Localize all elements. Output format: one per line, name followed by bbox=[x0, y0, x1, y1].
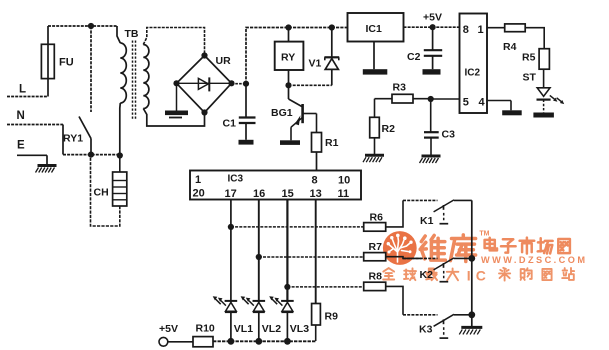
wire IC3 pin15 column bbox=[286, 200, 288, 303]
ground at E bbox=[38, 164, 57, 167]
svg-text:+5V: +5V bbox=[423, 12, 442, 24]
node C1 top bbox=[243, 81, 249, 87]
svg-text:IC2: IC2 bbox=[465, 68, 481, 79]
svg-text:R4: R4 bbox=[503, 41, 517, 53]
node BG1 collector bbox=[285, 82, 291, 88]
svg-text:VL1: VL1 bbox=[234, 323, 253, 335]
node VL1 bottom bbox=[228, 338, 235, 345]
ground at K rail bbox=[461, 326, 482, 329]
svg-text:C1: C1 bbox=[223, 118, 237, 130]
wire bridge to C1 node bbox=[232, 83, 247, 85]
wire IC2 pin1 to R4 bbox=[487, 27, 505, 29]
pushbutton K3 bbox=[403, 314, 472, 338]
ground at R2 bbox=[365, 154, 384, 157]
wire N row to CH bbox=[63, 154, 120, 156]
svg-text:WWW.DZSC.COM: WWW.DZSC.COM bbox=[481, 255, 587, 265]
svg-text:K1: K1 bbox=[420, 215, 434, 227]
wire top-left bus bbox=[48, 25, 117, 27]
svg-text:+5V: +5V bbox=[159, 323, 178, 335]
resistor R4 bbox=[505, 24, 526, 32]
svg-text:TB: TB bbox=[125, 28, 139, 40]
terminal E bbox=[17, 140, 47, 165]
choke CH bbox=[91, 155, 127, 226]
svg-text:ST: ST bbox=[523, 72, 537, 84]
svg-text:RY: RY bbox=[281, 52, 295, 64]
watermark slogan bbox=[383, 268, 574, 284]
terminal +5V bottom bbox=[159, 337, 193, 346]
svg-text:E: E bbox=[17, 140, 25, 152]
ground at IC2 pin4 bbox=[502, 110, 522, 115]
svg-text:VL2: VL2 bbox=[262, 323, 281, 335]
ground at bridge bbox=[165, 83, 188, 118]
LED VL3 bbox=[269, 296, 294, 341]
svg-text:IC3: IC3 bbox=[228, 174, 244, 185]
wire IC2 pin5 row bbox=[431, 98, 460, 100]
wire R6 row bbox=[231, 226, 364, 228]
svg-text:R10: R10 bbox=[196, 323, 215, 335]
terminal L bbox=[7, 84, 48, 97]
svg-text:8: 8 bbox=[312, 175, 318, 187]
svg-text:I: I bbox=[467, 268, 471, 284]
node K3 rail bbox=[468, 311, 475, 318]
resistor R7 bbox=[364, 253, 386, 261]
node V1 top bbox=[329, 24, 335, 30]
wire IC3 pin16 column bbox=[258, 200, 260, 303]
svg-text:UR: UR bbox=[216, 55, 232, 67]
svg-text:VL3: VL3 bbox=[290, 323, 309, 335]
wire R6 to K1 bbox=[386, 200, 403, 227]
node VL2 bottom bbox=[255, 338, 262, 345]
node K2 rail bbox=[468, 255, 475, 262]
svg-text:BG1: BG1 bbox=[271, 107, 293, 119]
svg-text:10: 10 bbox=[338, 175, 350, 187]
bottom bus bbox=[213, 340, 316, 342]
wire R7 to K2 bbox=[386, 257, 422, 259]
svg-text:R5: R5 bbox=[522, 52, 536, 64]
svg-text:RY1: RY1 bbox=[63, 133, 83, 145]
wire RY/V1 bottom row bbox=[289, 84, 332, 86]
wire K right rail bbox=[471, 200, 473, 327]
svg-text:R3: R3 bbox=[393, 82, 407, 94]
pushbutton K2 bbox=[403, 258, 472, 282]
pushbutton K1 bbox=[403, 200, 472, 224]
svg-text:CH: CH bbox=[94, 187, 109, 199]
svg-text:R9: R9 bbox=[325, 311, 339, 323]
resistor R8 bbox=[364, 282, 386, 290]
wire IC1 to IC2 bbox=[404, 26, 460, 28]
wire R7 row bbox=[259, 256, 364, 258]
node VL3 bottom bbox=[284, 338, 291, 345]
wire R8 to K3 bbox=[386, 286, 403, 314]
svg-text:15: 15 bbox=[282, 188, 294, 200]
svg-text:16: 16 bbox=[253, 188, 265, 200]
LED VL2 bbox=[241, 296, 266, 341]
capacitor C3 bbox=[424, 99, 439, 156]
resistor R6 bbox=[364, 223, 386, 232]
ground at ST bbox=[533, 113, 554, 118]
svg-text:R7: R7 bbox=[369, 241, 383, 253]
relay coil RY bbox=[275, 28, 304, 86]
resistor R1 bbox=[312, 133, 322, 171]
transformer TB primary bbox=[117, 26, 126, 156]
svg-text:8: 8 bbox=[463, 24, 469, 36]
capacitor C2 bbox=[423, 27, 443, 74]
node TB bottom / CH top bbox=[117, 152, 123, 158]
node RY1 bottom bbox=[88, 152, 94, 158]
svg-text:17: 17 bbox=[225, 188, 237, 200]
fuse FU bbox=[41, 26, 54, 97]
node junction top bbox=[88, 23, 94, 29]
controller IC3 bbox=[190, 171, 361, 200]
wire IC3 pin17 column bbox=[230, 200, 232, 303]
resistor R9 bbox=[312, 304, 321, 342]
svg-text:R2: R2 bbox=[382, 123, 396, 135]
svg-text:FU: FU bbox=[59, 57, 74, 69]
wire IC2 pin4 to ground bbox=[487, 101, 511, 111]
node pin16/R7 bbox=[256, 254, 262, 260]
transformer TB core bbox=[132, 41, 134, 120]
terminal N bbox=[7, 110, 63, 155]
node R3/C3 bbox=[428, 96, 434, 102]
svg-text:C: C bbox=[476, 268, 486, 284]
wire R4 to R5 bbox=[525, 28, 544, 49]
watermark text 电子市场网 bbox=[485, 238, 570, 254]
resistor R3 bbox=[392, 94, 413, 103]
LED ST bbox=[537, 69, 565, 112]
wire IC3 pin13 column bbox=[315, 200, 317, 304]
ground at C3 bbox=[422, 155, 441, 158]
resistor R2 bbox=[370, 117, 380, 155]
wire R3 right to node bbox=[413, 98, 431, 100]
transformer TB secondary bbox=[143, 28, 204, 127]
svg-text:IC1: IC1 bbox=[366, 23, 383, 35]
svg-text:K3: K3 bbox=[419, 324, 433, 336]
svg-text:11: 11 bbox=[338, 188, 350, 200]
svg-text:R1: R1 bbox=[325, 137, 339, 149]
ground at BG1 bbox=[280, 140, 300, 145]
node pin17/R6 bbox=[228, 224, 234, 230]
node pin15/R8 bbox=[284, 284, 290, 290]
svg-text:4: 4 bbox=[479, 97, 486, 109]
svg-text:N: N bbox=[17, 110, 25, 122]
svg-text:5: 5 bbox=[463, 97, 469, 109]
svg-text:1: 1 bbox=[478, 24, 484, 36]
ground at IC1 bbox=[363, 42, 388, 75]
svg-text:TM: TM bbox=[479, 230, 489, 237]
watermark text 维库 bbox=[420, 235, 475, 262]
svg-text:R6: R6 bbox=[370, 212, 384, 224]
bridge rectifier UR bbox=[173, 52, 234, 115]
diode V1 bbox=[324, 28, 339, 86]
svg-text:13: 13 bbox=[310, 188, 322, 200]
svg-text:1: 1 bbox=[195, 174, 201, 186]
capacitor C1 bbox=[239, 84, 256, 145]
watermark logo circle bbox=[383, 231, 417, 265]
node RY top bbox=[285, 24, 291, 30]
svg-text:C2: C2 bbox=[407, 51, 421, 63]
resistor R10 bbox=[193, 337, 213, 347]
wire R8 row bbox=[287, 286, 363, 288]
transistor BG1 bbox=[289, 85, 317, 140]
svg-text:L: L bbox=[19, 84, 26, 96]
svg-text:K2: K2 bbox=[420, 269, 434, 281]
relay switch RY1 bbox=[79, 26, 91, 155]
wire C1 node up and top-right bus bbox=[246, 28, 348, 84]
svg-text:R8: R8 bbox=[369, 271, 383, 283]
svg-text:20: 20 bbox=[193, 188, 205, 200]
node +5V bbox=[430, 24, 436, 30]
svg-text:C3: C3 bbox=[442, 129, 456, 141]
svg-text:V1: V1 bbox=[309, 58, 322, 70]
regulator IC1 bbox=[348, 13, 404, 42]
wire R3 left to R2 bbox=[375, 99, 393, 118]
timer IC2 bbox=[460, 14, 488, 114]
resistor R5 bbox=[539, 49, 549, 69]
LED VL1 bbox=[213, 296, 238, 341]
